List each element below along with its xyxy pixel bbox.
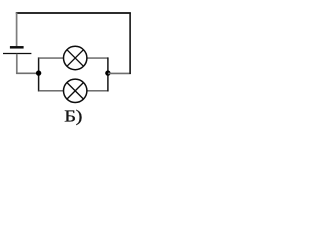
lamp HL2 cross [67,83,84,100]
lamp HL1 circle [63,46,86,69]
wire bottom branch left segment [39,90,64,92]
lamp HL1 cross [67,50,84,67]
wire right riser [129,13,131,74]
node A junction dot [36,70,41,75]
wire left bracket vertical [38,57,40,91]
battery B1 short thick plate (negative) [10,46,24,49]
wire right bracket vertical [107,57,109,91]
node B junction dot [105,70,110,75]
wire top horizontal [16,12,131,14]
label Б) [64,107,82,126]
wire top branch left segment [39,57,64,59]
wire left riser upper (battery top lead) [16,13,18,47]
battery B1 long thin plate (positive) [3,53,31,55]
wire bottom-right connector from node B [108,72,131,74]
wire bottom-left connector to node A [16,72,38,74]
wire left riser lower (battery bottom lead) [16,54,18,74]
lamp HL2 circle [63,79,86,102]
svg-text:Б): Б) [64,107,82,126]
wire top branch right segment [87,57,108,59]
wire bottom branch right segment [87,90,108,92]
